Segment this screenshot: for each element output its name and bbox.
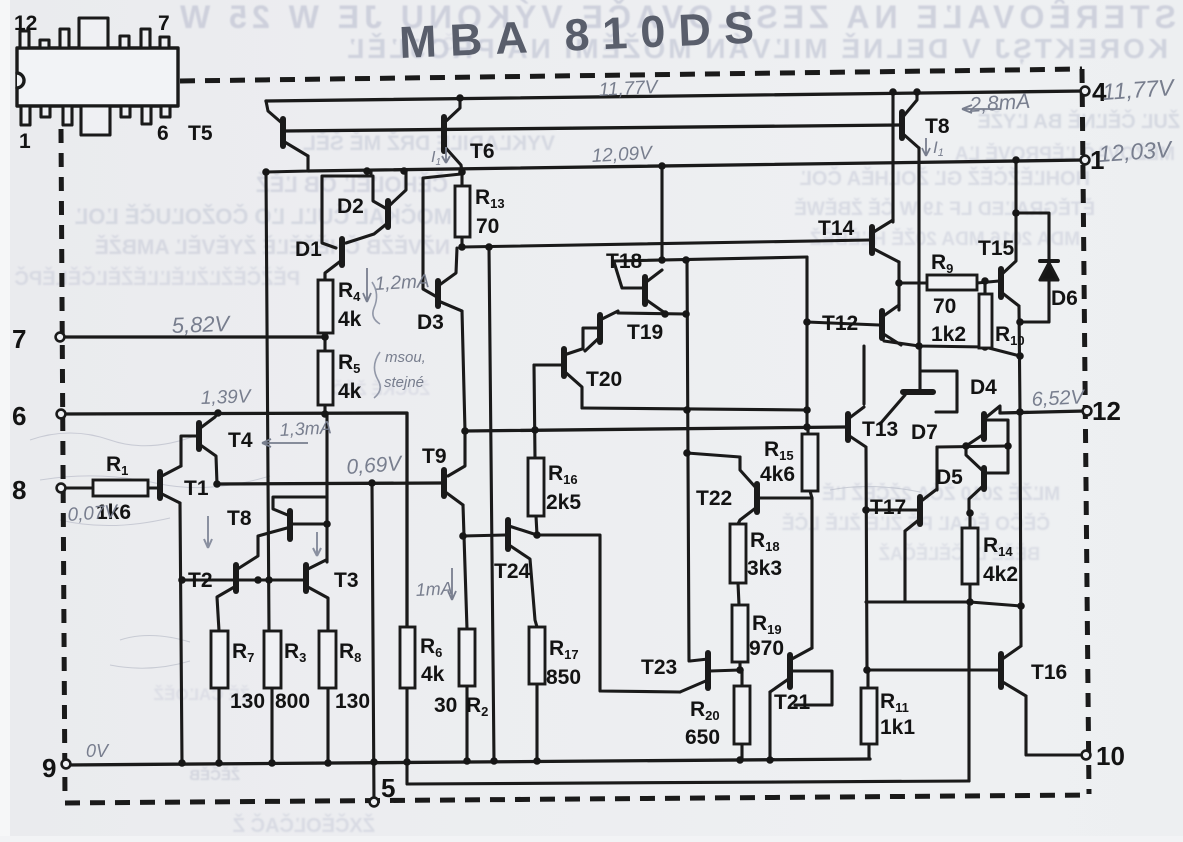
wire D6 top link xyxy=(1016,213,1049,261)
svg-text:7: 7 xyxy=(158,12,170,35)
svg-text:4k: 4k xyxy=(338,308,362,331)
transistor T4 xyxy=(196,423,202,449)
wire R19 bottom stub xyxy=(738,662,741,670)
diode D3 transistor-connected xyxy=(435,281,441,306)
svg-text:130: 130 xyxy=(230,690,265,713)
wire pin8 to R1 to T1 base xyxy=(61,486,157,489)
diode D6 xyxy=(1040,259,1058,263)
wire rail C pin1 12,09V rail xyxy=(308,160,1085,171)
svg-text:1,39V: 1,39V xyxy=(200,386,253,409)
pin 5 terminal xyxy=(370,798,379,807)
resistor R13 xyxy=(455,186,470,237)
svg-text:VYKĽADIĽE DRŽ MĚ ŠĚL: VYKĽADIĽE DRŽ MĚ ŠĚL xyxy=(303,131,555,155)
wire R9 left stub xyxy=(899,281,927,284)
transistor T3 xyxy=(303,565,309,591)
svg-text:1: 1 xyxy=(19,130,31,153)
svg-text:2,8mA: 2,8mA xyxy=(968,90,1031,117)
dashed border left xyxy=(61,129,65,800)
wire x893 T14 collector riser xyxy=(891,92,894,222)
wire R16 bottom stub xyxy=(536,516,537,535)
wire R13 bottom to T14 base xyxy=(462,240,870,247)
svg-text:D1: D1 xyxy=(295,238,322,261)
diode D1 transistor-connected xyxy=(339,239,345,265)
svg-text:T4: T4 xyxy=(228,429,253,452)
wire x919 T8 collector drop xyxy=(917,148,920,346)
pin 10 terminal xyxy=(1082,751,1091,760)
pin 1 terminal xyxy=(1081,156,1090,165)
arrow 1,3mA left xyxy=(262,439,308,447)
resistor R19 xyxy=(732,605,748,662)
transistor T16 xyxy=(998,654,1004,687)
transistor T13 xyxy=(845,414,851,440)
svg-text:T2: T2 xyxy=(188,569,213,592)
wire T2-T3 base rail xyxy=(182,578,303,581)
svg-text:12,03V: 12,03V xyxy=(1098,136,1175,167)
wire R9 right to T15 base xyxy=(977,281,999,283)
svg-text:1k1: 1k1 xyxy=(880,716,915,739)
wire R18-R19 link xyxy=(738,583,739,605)
resistor R16 xyxy=(528,458,544,516)
svg-text:4k: 4k xyxy=(421,663,445,686)
resistor R18 xyxy=(730,524,746,583)
resistor R9 xyxy=(927,275,977,290)
svg-text:11,77V: 11,77V xyxy=(1102,74,1177,105)
wire T21 emitter hook xyxy=(790,671,832,705)
resistor R14 xyxy=(962,528,978,584)
wire R6 bottom loop to output node xyxy=(407,627,969,784)
svg-text:HOHĽĚŽČĚŽ GĽ ŽOĽHĚA ČOĽ: HOHĽĚŽČĚŽ GĽ ŽOĽHĚA ČOĽ xyxy=(800,166,1090,190)
transistor T2 xyxy=(233,565,239,591)
wire D6 bottom link xyxy=(1020,280,1049,322)
wire R11 stubs xyxy=(868,670,869,759)
svg-text:NŽVĚŽB ČHĚŽĚĽĚ ŽYĚVĚĽ AMBŽĚ: NŽVĚŽB ČHĚŽĚĽĚ ŽYĚVĚĽ AMBŽĚ xyxy=(95,235,450,259)
svg-text:0,69V: 0,69V xyxy=(346,452,404,479)
transistor T14 xyxy=(869,227,875,253)
wire R17 bottom stub xyxy=(535,684,538,761)
wire R3 bottom stub xyxy=(270,688,273,763)
wire T22 collector link xyxy=(687,453,740,457)
svg-text:D7: D7 xyxy=(911,421,938,444)
wire pin12 rail 6,52V xyxy=(1000,411,1085,413)
wire R14 stubs xyxy=(968,513,971,602)
wire T17 collector riser xyxy=(935,447,938,490)
svg-text:4k6: 4k6 xyxy=(760,463,795,486)
svg-text:4k2: 4k2 xyxy=(983,563,1018,586)
pin 8 terminal xyxy=(57,484,66,493)
IC bottom pins xyxy=(21,106,170,135)
diode D2 transistor-connected xyxy=(385,201,391,227)
svg-text:6: 6 xyxy=(157,122,169,145)
wire node line y602 R14 bottom xyxy=(866,602,1021,606)
svg-text:850: 850 xyxy=(546,666,581,689)
pin 6 terminal xyxy=(57,410,66,419)
resistor R8 xyxy=(319,631,336,688)
wire rail B T5-T8 base rail xyxy=(283,125,899,131)
arrow 1,2mA down xyxy=(363,268,371,302)
node dots xyxy=(262,168,270,176)
svg-text:D5: D5 xyxy=(936,466,963,489)
svg-text:9: 9 xyxy=(42,753,56,783)
resistor R15 xyxy=(802,434,818,491)
svg-text:6,52V: 6,52V xyxy=(1031,386,1086,411)
transistor T21 xyxy=(787,655,793,687)
wire x662 T18 collector riser xyxy=(660,166,663,260)
resistor R6 xyxy=(400,627,415,688)
wire T12 base link xyxy=(807,322,879,325)
wire T21 collector riser to R15 bottom xyxy=(810,498,813,648)
wire T9 emitter to R2 xyxy=(463,505,467,629)
svg-text:BĚŽĚ ĽĚČĚĽĚČAŽ: BĚŽĚ ĽĚČĚĽĚČAŽ xyxy=(879,543,1040,564)
svg-text:70: 70 xyxy=(476,215,499,238)
transistor T24 xyxy=(505,520,511,549)
svg-text:30: 30 xyxy=(434,694,457,717)
wire x969 output drop xyxy=(967,606,970,781)
wire R10 top stub xyxy=(983,281,986,294)
arrow 2,8mA xyxy=(962,105,1000,113)
dashed border bottom xyxy=(65,795,1089,803)
wire R20 stubs xyxy=(740,670,743,760)
svg-text:D4: D4 xyxy=(970,376,997,399)
svg-text:msou,: msou, xyxy=(385,349,426,366)
svg-text:T5: T5 xyxy=(188,122,213,145)
wire bias vertical x489 xyxy=(489,247,494,761)
svg-text:970: 970 xyxy=(749,637,784,660)
svg-text:T1: T1 xyxy=(184,477,209,500)
svg-text:T18: T18 xyxy=(606,250,643,273)
wire D3e-T9c vertical xyxy=(441,302,465,476)
svg-text:D6: D6 xyxy=(1051,287,1078,310)
svg-text:8: 8 xyxy=(12,475,26,505)
dashed border top xyxy=(180,69,1082,81)
diode D7 xyxy=(903,389,933,395)
transistor T5 xyxy=(280,119,286,146)
svg-text:T3: T3 xyxy=(334,569,359,592)
resistor R4 xyxy=(318,280,333,333)
svg-text:T13: T13 xyxy=(862,418,898,441)
transistor T18 xyxy=(642,277,648,304)
svg-text:6: 6 xyxy=(12,401,26,431)
svg-text:0V: 0V xyxy=(86,741,110,761)
wire R7 bottom stub xyxy=(217,688,220,763)
pin 7 terminal xyxy=(56,333,65,342)
pencil arrow T3 xyxy=(313,532,321,556)
svg-text:130: 130 xyxy=(335,690,370,713)
wire node line y446 D4-D5 xyxy=(937,446,1008,447)
wire T13 emitter drop xyxy=(866,448,867,670)
wire T13 collector riser xyxy=(862,346,865,404)
svg-text:T6: T6 xyxy=(470,140,495,163)
svg-text:650: 650 xyxy=(685,726,720,749)
resistor R11 xyxy=(861,688,877,744)
arrow I1 T6 down xyxy=(442,147,450,163)
wire T15 collector riser xyxy=(1014,160,1017,213)
transistor T1 xyxy=(157,472,163,498)
resistor R1 xyxy=(93,480,148,496)
resistors xyxy=(93,186,992,744)
wire R2 bottom stub xyxy=(465,686,468,761)
wire T17 emitter drop xyxy=(903,532,906,602)
wire T18e-T19c y314 xyxy=(618,313,686,314)
svg-text:T8: T8 xyxy=(925,115,950,138)
transistor T23 xyxy=(705,653,711,688)
wire rail A 11,77V top supply xyxy=(266,91,1085,101)
pin terminal circles xyxy=(56,87,1092,807)
transistor T20 xyxy=(561,349,567,376)
wire R4-R5 link and stubs xyxy=(323,274,326,414)
wire R15 stubs xyxy=(808,427,812,498)
IC notch xyxy=(17,73,24,88)
svg-text:T8: T8 xyxy=(227,507,252,530)
svg-text:D2: D2 xyxy=(337,195,364,218)
wire T14e-T12c link xyxy=(897,262,900,310)
wire pin5 feedback vertical xyxy=(372,483,374,803)
transistor T8 top xyxy=(899,112,905,138)
svg-text:1k2: 1k2 xyxy=(931,323,966,346)
resistor R17 xyxy=(529,627,545,684)
wire 0,69V rail xyxy=(217,483,441,484)
svg-text:12,09V: 12,09V xyxy=(591,143,655,167)
wire pin7 rail 5,82V xyxy=(61,335,325,338)
pin 4 terminal xyxy=(1081,87,1090,96)
svg-text:T23: T23 xyxy=(641,656,677,679)
wire T16 emitter to pin10 xyxy=(1026,697,1082,755)
svg-text:D3: D3 xyxy=(417,311,444,334)
brace near R4 xyxy=(372,282,380,324)
wire T24c node to T23 base xyxy=(537,535,680,692)
resistor R7 xyxy=(211,631,228,688)
wire R13 stubs xyxy=(460,172,463,247)
svg-text:T9: T9 xyxy=(422,445,447,468)
transistor T15 xyxy=(998,269,1004,297)
svg-text:12: 12 xyxy=(14,12,37,35)
wire T1 emitter vertical to ground xyxy=(180,503,182,763)
pencil arrow T2 xyxy=(204,516,212,548)
dashed border right xyxy=(1082,69,1089,794)
svg-text:T14: T14 xyxy=(818,217,855,240)
resistor R20 xyxy=(734,686,750,744)
svg-text:5: 5 xyxy=(381,773,395,803)
diode D4 transistor-connected xyxy=(981,414,987,439)
wire D3 base loop to R13 top xyxy=(423,174,461,297)
wire R8 bottom stub xyxy=(326,688,329,763)
svg-text:0,07V: 0,07V xyxy=(67,501,120,526)
svg-text:2k5: 2k5 xyxy=(546,491,581,514)
svg-text:1,2mA: 1,2mA xyxy=(374,271,430,295)
wire T12 emitter line y346 xyxy=(884,341,1020,356)
IC top pins xyxy=(20,18,169,48)
svg-text:stejné: stejné xyxy=(384,374,424,391)
wire rail D to T13 base xyxy=(465,427,845,431)
resistor R5 xyxy=(318,351,333,405)
svg-text:12: 12 xyxy=(1092,396,1121,426)
wire x327 riser xyxy=(325,414,328,562)
wire x687 T23 collector riser xyxy=(687,260,689,661)
svg-text:T22: T22 xyxy=(696,487,732,510)
wire T15 emitter / pin12 / T16 collector vertical xyxy=(1019,307,1021,645)
transistor T17 xyxy=(917,497,923,524)
wire T20 base down through rail D to R16 xyxy=(534,365,535,458)
svg-text:ŽĚČĚB: ŽĚČĚB xyxy=(189,766,240,784)
svg-text:7: 7 xyxy=(12,324,26,354)
wire bootstrap y410 xyxy=(582,408,807,410)
svg-text:T20: T20 xyxy=(586,368,622,391)
transistor T19 xyxy=(597,315,603,342)
faint pencil scribble patches xyxy=(30,433,920,668)
pin 12 terminal xyxy=(1083,407,1092,416)
svg-text:T21: T21 xyxy=(774,691,811,714)
wire T21 base drop to ground xyxy=(768,692,771,760)
svg-text:PĚŽČĚŽĽŽĽĚĽĽĚŽĚĽČĚLĚPČ: PĚŽČĚŽĽŽĽĚĽĽĚŽĚĽČĚLĚPČ xyxy=(14,266,300,290)
svg-text:11,77V: 11,77V xyxy=(598,77,660,101)
diode D5 transistor-connected xyxy=(981,468,987,489)
transistor T12 xyxy=(879,311,885,338)
wire pin6 rail 1,39V down to R6 xyxy=(61,413,407,627)
svg-text:T12: T12 xyxy=(822,312,858,335)
svg-text:T16: T16 xyxy=(1031,661,1067,684)
svg-text:T24: T24 xyxy=(494,560,531,583)
brace near R5 xyxy=(374,352,380,398)
svg-text:T17: T17 xyxy=(870,496,906,519)
arrow 1mA down xyxy=(448,568,456,600)
arrow I1 down xyxy=(922,138,930,156)
wire ground rail pin9 xyxy=(66,759,870,765)
resistor R3 xyxy=(264,631,281,688)
resistor R2 xyxy=(459,629,475,686)
resistor R10 xyxy=(979,294,992,348)
transistor T8 middle xyxy=(287,511,293,539)
transistor T9 xyxy=(441,470,447,496)
wire T16 base line xyxy=(867,668,999,671)
pin 9 terminal xyxy=(62,760,71,769)
IC package body xyxy=(17,18,178,135)
svg-text:800: 800 xyxy=(275,690,310,713)
svg-text:1,3mA: 1,3mA xyxy=(279,417,332,440)
svg-text:1mA: 1mA xyxy=(415,578,453,600)
svg-text:ŽXČĚOĽČAČ Ž: ŽXČĚOĽČAČ Ž xyxy=(233,813,375,837)
svg-text:MOČKAĽ ČUĽL ĽO ČOŽOĽUČĚ ĽOĽ: MOČKAĽ ČUĽL ĽO ČOŽOĽUČĚ ĽOĽ xyxy=(75,204,452,229)
wire bootstrap top y259 xyxy=(614,257,807,261)
transistor T6 xyxy=(441,117,447,151)
svg-text:5,82V: 5,82V xyxy=(171,311,232,338)
wire T5 collector bias line down to R3 xyxy=(266,172,269,631)
wire T5 emitter elbow xyxy=(266,156,308,172)
transistor T22 xyxy=(754,484,760,512)
svg-text:4k: 4k xyxy=(338,380,362,403)
svg-text:70: 70 xyxy=(933,295,956,318)
svg-text:3k3: 3k3 xyxy=(747,557,782,580)
wire x807 bootstrap right xyxy=(805,257,808,427)
svg-text:T19: T19 xyxy=(627,321,663,344)
svg-text:T15: T15 xyxy=(978,237,1015,260)
svg-text:10: 10 xyxy=(1096,741,1125,771)
